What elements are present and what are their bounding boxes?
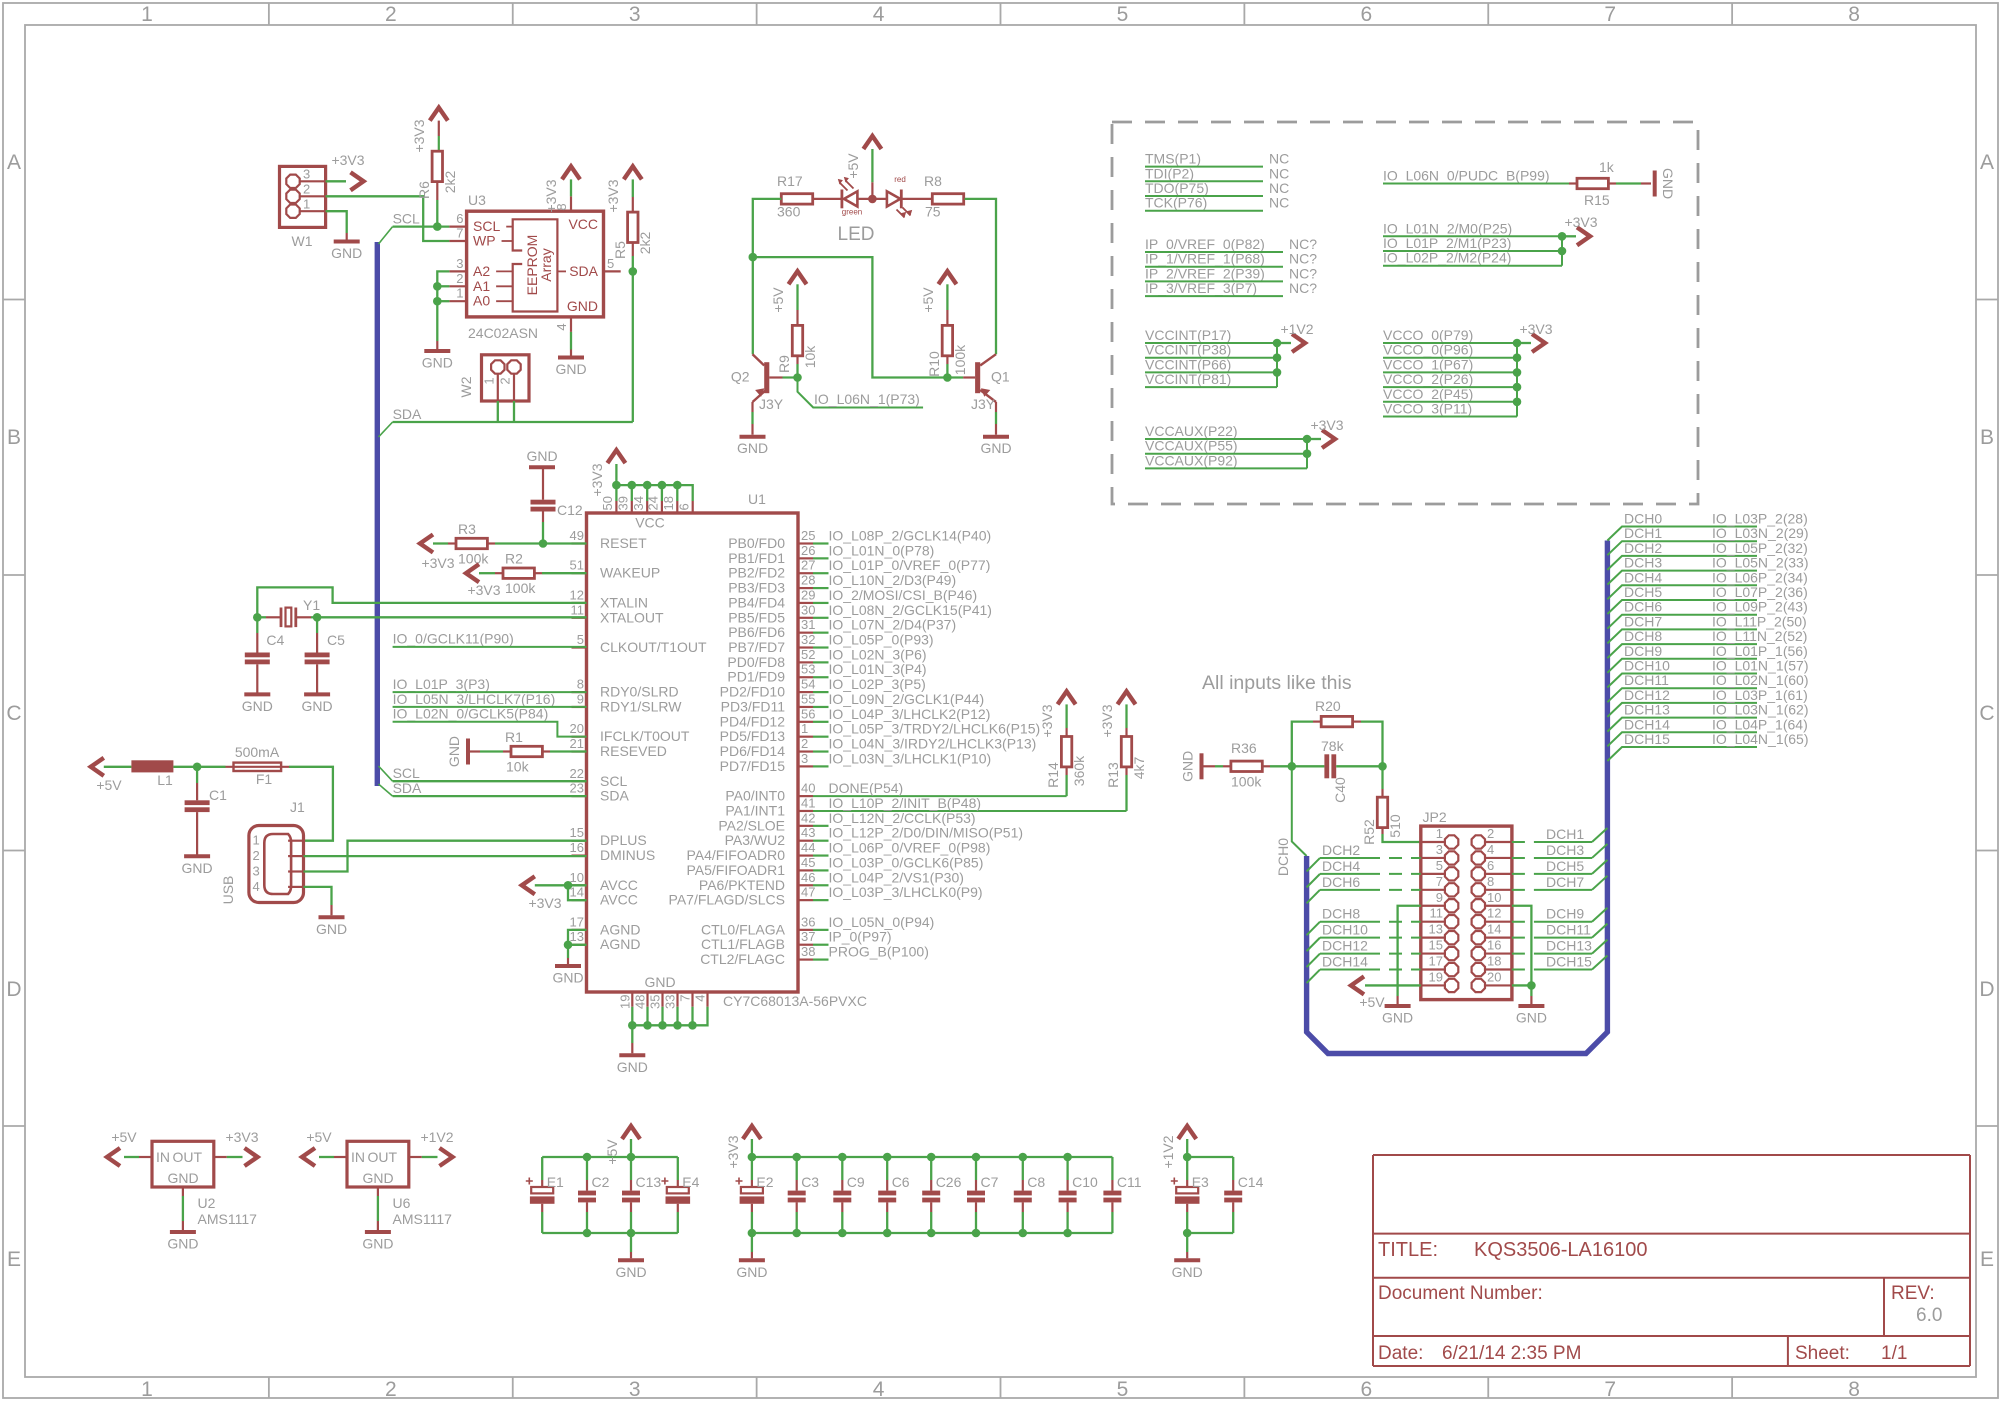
resistor R1 10k xyxy=(468,729,587,775)
LED green xyxy=(813,177,862,217)
supply +5V above R9 xyxy=(770,271,807,325)
svg-text:IO_L10N_2/D3(P49): IO_L10N_2/D3(P49) xyxy=(829,572,957,588)
svg-text:C4: C4 xyxy=(266,632,284,648)
svg-text:GND: GND xyxy=(615,1264,646,1280)
svg-text:+3V3: +3V3 xyxy=(725,1135,741,1168)
svg-text:56: 56 xyxy=(801,706,815,721)
svg-text:17: 17 xyxy=(1429,954,1443,969)
svg-text:AVCC: AVCC xyxy=(600,892,638,908)
wire XTALIN loop xyxy=(257,587,586,617)
svg-text:NC?: NC? xyxy=(1289,265,1317,281)
ground GND below A0 xyxy=(422,351,453,371)
net VCCAUX group to +3V3 xyxy=(1145,423,1307,468)
svg-text:NC: NC xyxy=(1269,195,1289,211)
svg-text:WAKEUP: WAKEUP xyxy=(600,565,660,581)
svg-text:IN: IN xyxy=(156,1149,170,1165)
svg-text:NC?: NC? xyxy=(1289,251,1317,267)
svg-text:DCH3: DCH3 xyxy=(1546,842,1584,858)
svg-text:19: 19 xyxy=(1429,969,1443,984)
capacitor C40 xyxy=(1292,754,1383,803)
capacitor C3 xyxy=(788,1157,820,1233)
svg-text:+3V3: +3V3 xyxy=(528,895,561,911)
svg-text:A: A xyxy=(7,151,21,174)
net DCH10 bus to JP2 xyxy=(1307,922,1421,952)
ground GND at USB shell xyxy=(316,917,347,937)
ground GND at C4 xyxy=(242,694,273,714)
svg-text:PD2/FD10: PD2/FD10 xyxy=(720,684,786,700)
svg-text:B: B xyxy=(7,426,21,449)
svg-text:PD5/FD13: PD5/FD13 xyxy=(720,728,786,744)
svg-text:R36: R36 xyxy=(1231,740,1257,756)
wire stub bus to SCL top xyxy=(379,227,393,244)
svg-text:DCH11: DCH11 xyxy=(1546,922,1591,938)
svg-text:J3Y: J3Y xyxy=(759,396,784,412)
supply +3V3 at U1 VCC rail xyxy=(589,450,625,496)
svg-text:C3: C3 xyxy=(801,1174,819,1190)
svg-text:4: 4 xyxy=(1487,842,1494,857)
ground GND at AGND xyxy=(552,966,583,986)
capacitor bank +5V rail xyxy=(542,1157,678,1233)
svg-text:20: 20 xyxy=(1487,969,1501,984)
svg-text:43: 43 xyxy=(801,825,815,840)
svg-text:DCH8: DCH8 xyxy=(1322,906,1360,922)
svg-text:B: B xyxy=(1980,426,1994,449)
junctions bank1 xyxy=(583,1153,592,1162)
wire stub bus to SDA at U1 xyxy=(379,784,393,796)
svg-text:100k: 100k xyxy=(952,344,968,375)
svg-text:VCCO_1(P67): VCCO_1(P67) xyxy=(1383,356,1473,372)
svg-text:SDA: SDA xyxy=(569,263,598,279)
svg-text:5: 5 xyxy=(1117,1378,1129,1401)
svg-text:C10: C10 xyxy=(1072,1174,1098,1190)
svg-text:TITLE:: TITLE: xyxy=(1378,1239,1438,1261)
supply +3V3 above R13 xyxy=(1099,691,1136,737)
svg-text:54: 54 xyxy=(801,677,815,692)
svg-text:GND: GND xyxy=(1172,1264,1203,1280)
svg-text:CTL1/FLAGB: CTL1/FLAGB xyxy=(701,936,785,952)
capacitor C2 xyxy=(578,1157,610,1233)
U1 left pin stubs and names xyxy=(570,528,707,952)
net TMS(P1) NC xyxy=(1145,151,1289,167)
svg-text:VCCO_3(P11): VCCO_3(P11) xyxy=(1383,401,1472,417)
net IO_L10P_2/INIT_B(P48) to R13 xyxy=(813,795,1127,811)
svg-text:+3V3: +3V3 xyxy=(225,1129,258,1145)
capacitor E1 (polarized) xyxy=(526,1157,564,1233)
svg-text:6: 6 xyxy=(1487,858,1494,873)
wire SDA junction down to SDA net xyxy=(632,271,634,422)
svg-text:PB3/FD3: PB3/FD3 xyxy=(728,580,785,596)
svg-text:13: 13 xyxy=(1429,922,1443,937)
resistor R8 75 xyxy=(924,173,964,220)
connector JP2 body xyxy=(1421,809,1512,1000)
svg-text:VCCAUX(P22): VCCAUX(P22) xyxy=(1145,423,1238,439)
wire XTALOUT xyxy=(317,616,586,618)
svg-text:5: 5 xyxy=(1436,858,1443,873)
svg-text:4: 4 xyxy=(693,995,708,1002)
svg-text:IO_L05N_2(33): IO_L05N_2(33) xyxy=(1712,555,1809,571)
wire R2 to U1 WAKEUP xyxy=(542,572,587,574)
capacitor C8 xyxy=(1014,1157,1046,1233)
svg-text:IO_L03P_2(28): IO_L03P_2(28) xyxy=(1712,511,1808,527)
svg-text:DPLUS: DPLUS xyxy=(600,832,647,848)
net IO_L03P_0/GCLK6(P85) xyxy=(813,854,983,870)
svg-text:DCH2: DCH2 xyxy=(1322,842,1360,858)
svg-text:C2: C2 xyxy=(592,1174,610,1190)
capacitor C7 xyxy=(967,1157,999,1233)
svg-text:3: 3 xyxy=(303,167,310,182)
ground GND at JP2 left xyxy=(1382,1006,1413,1026)
svg-text:IO_L10P_2/INIT_B(P48): IO_L10P_2/INIT_B(P48) xyxy=(829,795,982,811)
svg-text:Document Number:: Document Number: xyxy=(1378,1283,1543,1304)
svg-text:PA4/FIFOADR0: PA4/FIFOADR0 xyxy=(686,847,785,863)
net DCH8 bus to JP2 xyxy=(1307,906,1421,936)
svg-text:PB4/FD4: PB4/FD4 xyxy=(728,594,785,610)
inductor L1 xyxy=(131,760,197,788)
svg-text:C26: C26 xyxy=(936,1174,962,1190)
transistor Q2 J3Y xyxy=(731,354,798,435)
svg-text:W1: W1 xyxy=(292,233,313,249)
svg-text:GND: GND xyxy=(182,860,213,876)
junction crystal right xyxy=(313,613,322,622)
svg-text:U1: U1 xyxy=(748,491,766,507)
svg-text:PD7/FD15: PD7/FD15 xyxy=(720,758,786,774)
capacitor E2 xyxy=(736,1157,774,1233)
svg-text:+3V3: +3V3 xyxy=(1099,704,1115,737)
svg-text:DCH11: DCH11 xyxy=(1624,672,1669,688)
svg-text:+5V: +5V xyxy=(845,153,861,179)
net IP_0(P97) xyxy=(813,929,892,945)
svg-text:+3V3: +3V3 xyxy=(1310,417,1343,433)
svg-text:C5: C5 xyxy=(327,632,345,648)
capacitor E3 (polarized) xyxy=(1171,1157,1209,1233)
svg-text:+3V3: +3V3 xyxy=(1564,214,1597,230)
svg-text:39: 39 xyxy=(616,496,631,510)
svg-text:VCCINT(P38): VCCINT(P38) xyxy=(1145,342,1231,358)
svg-text:9: 9 xyxy=(577,691,584,706)
svg-text:DCH15: DCH15 xyxy=(1624,731,1670,747)
supply +3V3 at W1 pin 3 xyxy=(326,152,365,190)
svg-text:10k: 10k xyxy=(506,759,530,775)
svg-text:IO_L11P_2(50): IO_L11P_2(50) xyxy=(1712,613,1807,629)
svg-text:15: 15 xyxy=(1429,938,1443,953)
svg-text:W2: W2 xyxy=(458,376,474,397)
svg-text:36: 36 xyxy=(801,914,815,929)
net VCCO group to +3V3 xyxy=(1383,327,1517,417)
resistor R14 360k xyxy=(1045,737,1087,788)
title block text TITLE: KQS3506-LA16100 xyxy=(1378,1239,1942,1364)
net DCH14 bus to JP2 xyxy=(1307,954,1421,984)
svg-text:R1: R1 xyxy=(505,729,523,745)
ground GND bank2 xyxy=(736,1233,767,1280)
svg-text:C12: C12 xyxy=(557,502,583,518)
svg-text:LED: LED xyxy=(838,224,875,245)
net label SDA (top) wire xyxy=(393,406,633,422)
junction L1 C1 xyxy=(193,763,202,772)
net IO_L05P_0(P93) xyxy=(813,632,934,648)
svg-text:PD4/FD12: PD4/FD12 xyxy=(720,713,786,729)
svg-text:IO_L09P_2(43): IO_L09P_2(43) xyxy=(1712,599,1808,615)
svg-text:PA6/PKTEND: PA6/PKTEND xyxy=(699,877,785,893)
svg-text:R20: R20 xyxy=(1315,698,1341,714)
svg-text:GND: GND xyxy=(737,440,768,456)
svg-text:R3: R3 xyxy=(458,521,476,537)
svg-text:DCH12: DCH12 xyxy=(1624,687,1670,703)
svg-text:NC: NC xyxy=(1269,180,1289,196)
svg-text:C6: C6 xyxy=(892,1174,910,1190)
svg-text:Array: Array xyxy=(538,248,554,281)
svg-text:U6: U6 xyxy=(393,1195,411,1211)
svg-text:2: 2 xyxy=(498,377,513,384)
svg-text:C: C xyxy=(6,702,21,725)
capacitor C12 with GND above xyxy=(526,448,582,544)
svg-text:100k: 100k xyxy=(1231,773,1262,789)
svg-text:F1: F1 xyxy=(256,771,273,787)
svg-text:6: 6 xyxy=(1360,1378,1372,1401)
svg-text:SCL: SCL xyxy=(600,773,627,789)
svg-text:+5V: +5V xyxy=(604,1139,620,1165)
svg-text:DCH8: DCH8 xyxy=(1624,628,1662,644)
net DCH3 / IO_L05N_2(33) xyxy=(1607,555,1808,585)
net IP_3/VREF_3(P7) NC? xyxy=(1145,280,1317,296)
svg-text:C40: C40 xyxy=(1332,777,1348,803)
svg-text:C7: C7 xyxy=(981,1174,999,1190)
svg-text:DCH7: DCH7 xyxy=(1546,874,1584,890)
svg-text:+5V: +5V xyxy=(111,1129,137,1145)
svg-text:IO_L07N_2/D4(P37): IO_L07N_2/D4(P37) xyxy=(829,617,957,633)
svg-text:16: 16 xyxy=(570,840,584,855)
svg-text:A0: A0 xyxy=(473,293,490,309)
svg-text:+3V3: +3V3 xyxy=(331,152,364,168)
svg-text:RESET: RESET xyxy=(600,535,647,551)
svg-text:1: 1 xyxy=(482,377,497,384)
svg-text:VCCAUX(P92): VCCAUX(P92) xyxy=(1145,452,1238,468)
svg-text:12: 12 xyxy=(570,587,584,602)
svg-text:IO_L03P_3/LHCLK0(P9): IO_L03P_3/LHCLK0(P9) xyxy=(829,884,983,900)
svg-text:PROG_B(P100): PROG_B(P100) xyxy=(829,944,929,960)
svg-text:C14: C14 xyxy=(1238,1174,1264,1190)
svg-text:IO_L01P_0/VREF_0(P77): IO_L01P_0/VREF_0(P77) xyxy=(829,557,991,573)
svg-text:31: 31 xyxy=(801,617,815,632)
svg-text:IO_L04P_3/LHCLK2(P12): IO_L04P_3/LHCLK2(P12) xyxy=(829,706,991,722)
svg-text:KQS3506-LA16100: KQS3506-LA16100 xyxy=(1474,1239,1647,1261)
svg-text:IO_0/GCLK11(P90): IO_0/GCLK11(P90) xyxy=(393,631,514,647)
svg-text:21: 21 xyxy=(570,736,584,751)
svg-text:IO_L04N_1(65): IO_L04N_1(65) xyxy=(1712,731,1809,747)
resistor R3 100k xyxy=(448,521,495,567)
svg-text:34: 34 xyxy=(631,496,646,510)
svg-text:PD0/FD8: PD0/FD8 xyxy=(727,654,785,670)
svg-text:46: 46 xyxy=(801,870,815,885)
svg-text:+1V2: +1V2 xyxy=(420,1129,453,1145)
svg-text:30: 30 xyxy=(801,602,815,617)
svg-text:6: 6 xyxy=(456,211,463,226)
svg-text:IO_L01P_3(P3): IO_L01P_3(P3) xyxy=(393,676,490,692)
svg-text:IO_L09N_2/GCLK1(P44): IO_L09N_2/GCLK1(P44) xyxy=(829,691,985,707)
net DCH15 JP2 to bus xyxy=(1512,954,1608,970)
svg-text:R6: R6 xyxy=(416,181,432,199)
svg-text:NC?: NC? xyxy=(1289,236,1317,252)
svg-text:IO_L11N_2(52): IO_L11N_2(52) xyxy=(1712,628,1807,644)
net DCH6 bus to JP2 xyxy=(1307,874,1421,904)
fuse F1 500mA xyxy=(197,744,289,787)
net DCH12 bus to JP2 xyxy=(1307,938,1421,968)
svg-text:VCCINT(P66): VCCINT(P66) xyxy=(1145,356,1231,372)
svg-text:18: 18 xyxy=(1487,954,1501,969)
svg-text:IO_L02N_1(60): IO_L02N_1(60) xyxy=(1712,672,1809,688)
svg-text:33: 33 xyxy=(663,995,678,1009)
junction R36-C40 xyxy=(1288,762,1297,771)
svg-text:IP_3/VREF_3(P7): IP_3/VREF_3(P7) xyxy=(1145,280,1257,296)
svg-text:GND: GND xyxy=(555,361,586,377)
net IO_L01N_3(P4) xyxy=(813,661,927,677)
svg-text:8: 8 xyxy=(1848,3,1860,26)
svg-text:RDY0/SLRD: RDY0/SLRD xyxy=(600,684,679,700)
svg-text:DCH9: DCH9 xyxy=(1546,906,1584,922)
svg-text:REV:: REV: xyxy=(1891,1283,1935,1304)
supply +5V above R10 xyxy=(920,271,956,325)
net DCH2 / IO_L05P_2(32) xyxy=(1607,540,1807,570)
svg-text:GND: GND xyxy=(1516,1010,1547,1026)
net IO_L01P_0/VREF_0(P77) xyxy=(813,557,990,573)
svg-text:44: 44 xyxy=(801,840,815,855)
svg-text:29: 29 xyxy=(801,587,815,602)
supply +5V at JP2 pin 19 xyxy=(1351,976,1421,1010)
svg-text:IO_L02N_3(P6): IO_L02N_3(P6) xyxy=(829,646,927,662)
svg-text:IO_L06P_2(34): IO_L06P_2(34) xyxy=(1712,569,1808,585)
svg-text:E4: E4 xyxy=(682,1174,699,1190)
resistor R10 100k xyxy=(926,325,968,376)
svg-text:DCH13: DCH13 xyxy=(1624,702,1670,718)
svg-text:GND: GND xyxy=(1180,751,1196,782)
svg-text:14: 14 xyxy=(1487,922,1501,937)
wire USB pin4 to GND xyxy=(304,887,332,915)
svg-text:18: 18 xyxy=(661,496,676,510)
wire A2 A1 A0 to GND xyxy=(437,271,449,349)
svg-text:IO_L05N_3/LHCLK7(P16): IO_L05N_3/LHCLK7(P16) xyxy=(393,691,556,707)
wire AGND pins xyxy=(568,930,587,966)
svg-text:28: 28 xyxy=(801,573,815,588)
svg-text:TMS(P1): TMS(P1) xyxy=(1145,151,1201,167)
svg-text:3: 3 xyxy=(1436,842,1443,857)
net DCH7 / IO_L11P_2(50) xyxy=(1607,613,1806,643)
svg-text:25: 25 xyxy=(801,528,815,543)
svg-text:+5V: +5V xyxy=(1359,994,1385,1010)
svg-text:+3V3: +3V3 xyxy=(411,119,427,152)
svg-text:SCL: SCL xyxy=(393,210,420,226)
capacitor bank +1V2 rail xyxy=(1187,1157,1233,1233)
svg-text:DCH3: DCH3 xyxy=(1624,555,1662,571)
svg-text:11: 11 xyxy=(1430,906,1444,921)
svg-text:4: 4 xyxy=(554,323,569,330)
dashed box FPGA connections xyxy=(1112,122,1698,504)
resistor R5 2k2 xyxy=(612,197,653,259)
svg-text:A1: A1 xyxy=(473,278,490,294)
svg-text:10: 10 xyxy=(570,870,584,885)
svg-text:GND: GND xyxy=(567,298,598,314)
svg-text:49: 49 xyxy=(570,528,584,543)
svg-text:2: 2 xyxy=(253,848,260,863)
bus DCH vertical and C-shape xyxy=(1307,541,1608,1054)
svg-text:AVCC: AVCC xyxy=(600,877,638,893)
svg-text:2k2: 2k2 xyxy=(442,171,458,194)
svg-text:IFCLK/T0OUT: IFCLK/T0OUT xyxy=(600,728,690,744)
resistor R6 2k2 xyxy=(416,151,458,200)
svg-text:GND: GND xyxy=(526,448,557,464)
wire R13 to INIT_B xyxy=(1125,775,1127,811)
svg-text:8: 8 xyxy=(1848,1378,1860,1401)
svg-text:GND: GND xyxy=(331,245,362,261)
svg-text:IO_L01N_2/M0(P25): IO_L01N_2/M0(P25) xyxy=(1383,220,1512,236)
IC U1 CY7C68013A-56PVXC body xyxy=(587,491,867,1009)
wire R17 left to corner xyxy=(753,199,782,257)
supply +3V3 at R3 xyxy=(420,535,455,572)
junction M0 xyxy=(1558,232,1567,241)
net VCCINT group to +1V2 xyxy=(1145,327,1277,387)
svg-text:10: 10 xyxy=(1487,890,1501,905)
svg-text:C: C xyxy=(1979,702,1994,725)
svg-text:PA0/INT0: PA0/INT0 xyxy=(725,788,785,804)
junction VCCINT P66 xyxy=(1273,368,1282,377)
capacitor C14 xyxy=(1224,1157,1263,1233)
svg-text:IO_L02N_0/GCLK5(P84): IO_L02N_0/GCLK5(P84) xyxy=(393,706,549,722)
net TDI(P2) NC xyxy=(1145,165,1289,181)
svg-text:DMINUS: DMINUS xyxy=(600,847,655,863)
svg-text:PA5/FIFOADR1: PA5/FIFOADR1 xyxy=(686,862,785,878)
svg-text:PA2/SLOE: PA2/SLOE xyxy=(718,817,785,833)
crystal Y1 xyxy=(257,597,320,627)
svg-text:7: 7 xyxy=(1604,3,1616,26)
wire R10 to base junction xyxy=(946,364,948,378)
wire R6 to SCL xyxy=(436,200,438,227)
svg-text:SDA: SDA xyxy=(393,780,422,796)
junction A0 xyxy=(433,297,442,306)
svg-text:CLKOUT/T1OUT: CLKOUT/T1OUT xyxy=(600,639,707,655)
svg-text:PB6/FD6: PB6/FD6 xyxy=(728,624,785,640)
wire junction down to Q2 collector xyxy=(752,257,754,354)
svg-text:10k: 10k xyxy=(802,345,818,369)
wire USB pin3 DPLUS xyxy=(304,841,587,872)
svg-text:IO_L03N_2(29): IO_L03N_2(29) xyxy=(1712,525,1809,541)
svg-text:OUT: OUT xyxy=(172,1149,202,1165)
svg-text:PD1/FD9: PD1/FD9 xyxy=(727,669,785,685)
svg-text:E: E xyxy=(1980,1248,1994,1271)
ground GND at Q1 xyxy=(980,437,1011,457)
net DCH11 / IO_L02N_1(60) xyxy=(1607,672,1808,702)
svg-text:51: 51 xyxy=(570,558,584,573)
svg-text:2: 2 xyxy=(385,1378,397,1401)
net DCH4 / IO_L06P_2(34) xyxy=(1607,569,1807,599)
svg-text:R2: R2 xyxy=(505,551,523,567)
net label IO_L05N_3/LHCLK7(P16) to RDY1 xyxy=(393,691,587,707)
resistor R36 100k xyxy=(1202,740,1292,789)
ground GND at W1 xyxy=(331,242,362,262)
resistor R9 10k xyxy=(776,325,818,373)
net DCH12 / IO_L03P_1(61) xyxy=(1607,687,1807,717)
svg-text:IO_L06N_1(P73): IO_L06N_1(P73) xyxy=(814,391,920,407)
svg-text:19: 19 xyxy=(618,995,633,1009)
junction LED center xyxy=(868,195,877,204)
junction M1 xyxy=(1558,247,1567,256)
svg-text:DCH4: DCH4 xyxy=(1322,858,1360,874)
net IO_L09N_2/GCLK1(P44) xyxy=(813,691,984,707)
ground GND at R1 (rotated) xyxy=(446,736,468,767)
junction VCCO row 2 xyxy=(1513,353,1522,362)
svg-text:IO_L01P_1(56): IO_L01P_1(56) xyxy=(1712,643,1808,659)
junction AGND xyxy=(564,941,573,950)
svg-text:GND: GND xyxy=(316,921,347,937)
svg-text:R8: R8 xyxy=(924,173,942,189)
net TDO(P75) NC xyxy=(1145,180,1289,196)
